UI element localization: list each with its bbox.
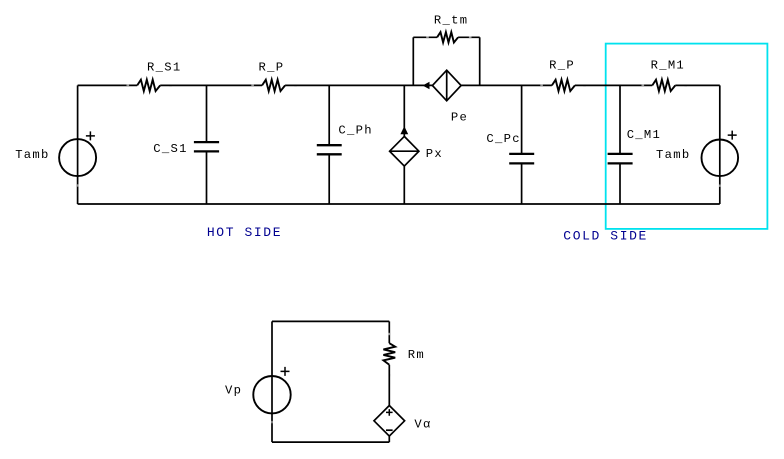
- wire top rail segment 1: [78, 84, 138, 86]
- dependent source Px branch wire: [403, 85, 405, 136]
- voltage source Tamb (right): [702, 140, 739, 177]
- svg-text:C_Ph: C_Ph: [338, 124, 372, 138]
- dependent source Pe diamond: [432, 70, 461, 101]
- capacitor C_M1: [619, 85, 621, 153]
- wire bottom rail: [78, 203, 720, 205]
- svg-text:HOT SIDE: HOT SIDE: [207, 225, 282, 240]
- svg-text:Rm: Rm: [408, 348, 425, 362]
- arrow on Pe wire (left): [423, 82, 430, 89]
- svg-text:COLD SIDE: COLD SIDE: [563, 229, 648, 244]
- resistor R_S1: [137, 80, 160, 91]
- dependent source Valpha diamond: [374, 406, 405, 437]
- resistor R_P (left): [262, 80, 285, 91]
- arrow on Px wire (up): [400, 126, 408, 134]
- svg-text:Vα: Vα: [414, 418, 431, 432]
- resistor R_M1: [652, 80, 675, 91]
- resistor R_P (right): [552, 80, 575, 91]
- wire bottom circuit top: [272, 320, 389, 322]
- svg-text:C_Pc: C_Pc: [486, 132, 520, 146]
- svg-text:R_P: R_P: [259, 60, 285, 74]
- svg-text:R_tm: R_tm: [434, 13, 468, 27]
- wire top rail segment 3: [285, 84, 432, 86]
- capacitor C_Pc: [521, 85, 523, 153]
- wire right branch upper: [388, 321, 390, 343]
- wire top rail segment 6: [675, 84, 720, 86]
- resistor R_tm loop right leg: [479, 37, 481, 85]
- svg-text:Px: Px: [426, 147, 443, 161]
- wire top rail segment 4: [461, 84, 552, 86]
- capacitor C_S1: [206, 85, 208, 142]
- capacitor C_Ph: [328, 85, 330, 145]
- resistor R_tm: [413, 36, 437, 38]
- svg-text:Tamb: Tamb: [15, 148, 49, 162]
- resistor R_tm loop left leg: [412, 37, 414, 85]
- voltage source Tamb (left): [59, 139, 96, 176]
- svg-text:Tamb: Tamb: [656, 148, 690, 162]
- svg-text:Vp: Vp: [225, 384, 242, 398]
- svg-text:R_P: R_P: [549, 58, 575, 72]
- cold side boundary box: [606, 44, 768, 229]
- voltage source Vp: [253, 376, 290, 413]
- wire right branch lower: [388, 436, 390, 442]
- wire right branch middle: [388, 365, 390, 406]
- wire bottom circuit bottom: [272, 441, 389, 443]
- svg-text:C_S1: C_S1: [153, 142, 187, 156]
- wire bottom circuit left: [271, 321, 273, 442]
- svg-text:C_M1: C_M1: [627, 128, 661, 142]
- svg-text:Pe: Pe: [451, 110, 468, 124]
- svg-text:R_S1: R_S1: [147, 61, 181, 75]
- dependent source Px diamond: [390, 136, 419, 166]
- wire top rail segment 5: [575, 84, 652, 86]
- wire right rail: [719, 85, 721, 204]
- wire top rail segment 2: [160, 84, 262, 86]
- svg-text:R_M1: R_M1: [651, 58, 685, 72]
- resistor Rm: [383, 343, 395, 365]
- wire left rail: [77, 85, 79, 204]
